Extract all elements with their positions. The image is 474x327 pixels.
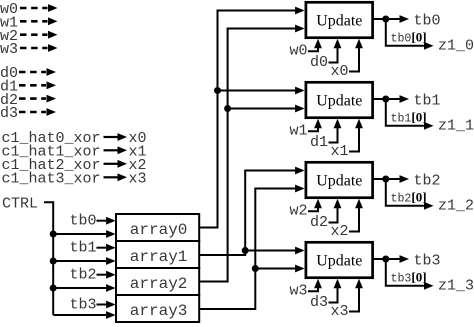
svg-text:array1: array1: [130, 248, 188, 266]
svg-text:w0: w0: [290, 43, 308, 60]
svg-text:tb2[0]: tb2[0]: [391, 189, 427, 205]
svg-text:tb3: tb3: [414, 252, 441, 269]
junction array0 branch: [214, 87, 221, 94]
svg-text:Update: Update: [316, 92, 362, 109]
wire U3 output: [373, 178, 401, 180]
svg-text:d2: d2: [310, 214, 328, 231]
wire w0 into U1 pin: [308, 45, 318, 51]
svg-text:w3: w3: [290, 283, 308, 300]
wire U1 output: [373, 18, 401, 20]
wire tb1[0] to z1_1: [386, 99, 425, 126]
wire array0 output to Update U1: [199, 11, 297, 228]
svg-text:z1_1: z1_1: [438, 118, 474, 135]
wire w1 dashed arrow: [20, 20, 48, 23]
wire U4 output: [373, 258, 401, 260]
svg-text:CTRL: CTRL: [2, 196, 38, 213]
wire x3 into U4 pin: [349, 285, 359, 312]
junction CTRL to array1: [50, 258, 57, 265]
wire c1_hat2_xor to x2: [104, 163, 119, 165]
op-amp U1 Update block: [306, 2, 373, 37]
svg-text:tb3[0]: tb3[0]: [391, 269, 427, 285]
wire CTRL bus: [44, 202, 53, 315]
svg-text:tb1: tb1: [70, 240, 97, 257]
svg-text:array3: array3: [130, 302, 188, 320]
wire d2 dashed arrow: [19, 97, 46, 100]
svg-text:x3: x3: [129, 171, 147, 188]
svg-text:z1_2: z1_2: [438, 198, 474, 215]
wire w0 dashed arrow: [20, 7, 48, 10]
svg-text:x0: x0: [331, 63, 349, 80]
svg-text:tb2: tb2: [70, 267, 97, 284]
wire tb3[0] to z1_3: [386, 259, 425, 286]
wire w3 into U4 pin: [308, 285, 318, 291]
wire array3 output to Update U3: [199, 189, 297, 310]
wire CTRL to array0: [53, 233, 106, 235]
svg-text:x1: x1: [331, 143, 349, 160]
wire array1 branch to Update U4: [245, 250, 296, 252]
wire x0 into U1 pin: [349, 45, 359, 72]
svg-text:tb1[0]: tb1[0]: [391, 109, 427, 125]
wire tb2 to array2: [97, 274, 107, 276]
wire tb1 to array1: [97, 247, 107, 249]
array0: [116, 214, 199, 241]
junction tb0 output node: [382, 16, 389, 23]
svg-text:Update: Update: [316, 252, 362, 269]
svg-text:d1: d1: [310, 134, 328, 151]
wire tb0 to array0: [97, 220, 107, 222]
array1: [116, 241, 199, 268]
junction array3 branch: [252, 265, 259, 272]
wire w1 into U2 pin: [308, 125, 318, 131]
wire tb0[0] to z1_0: [386, 19, 425, 46]
wire c1_hat3_xor to x3: [104, 176, 119, 178]
svg-text:c1_hat3_xor: c1_hat3_xor: [2, 171, 101, 188]
wire w3 dashed arrow: [20, 47, 48, 50]
wire c1_hat0_xor to x0: [104, 136, 119, 138]
wire d3 dashed arrow: [19, 111, 46, 114]
svg-text:z1_0: z1_0: [438, 38, 474, 55]
svg-text:w1: w1: [290, 123, 308, 140]
wire array3 branch to Update U4: [255, 268, 296, 270]
svg-text:d0: d0: [310, 54, 328, 71]
svg-text:array0: array0: [130, 221, 188, 239]
wire d1 dashed arrow: [19, 84, 46, 87]
wire d0 into U1 pin: [329, 45, 338, 63]
wire CTRL to array2: [53, 287, 106, 289]
wire w2 into U3 pin: [308, 205, 318, 211]
wire array2 branch to Update U2: [228, 108, 296, 110]
junction array1 branch: [242, 247, 249, 254]
svg-text:d3: d3: [310, 294, 328, 311]
svg-text:w2: w2: [290, 203, 308, 220]
wire c1_hat1_xor to x1: [104, 149, 119, 151]
wire tb2[0] to z1_2: [386, 179, 425, 206]
array2: [116, 268, 199, 295]
svg-text:array2: array2: [130, 275, 188, 293]
svg-text:d3: d3: [0, 105, 18, 122]
junction tb3 output node: [382, 256, 389, 263]
wire d1 into U2 pin: [329, 125, 338, 143]
wire d0 dashed arrow: [19, 71, 46, 74]
wire tb3 to array3: [97, 304, 107, 306]
svg-text:x2: x2: [331, 223, 349, 240]
svg-text:tb0: tb0: [414, 12, 441, 29]
svg-text:w3: w3: [0, 41, 18, 58]
wire array1 output to Update U3: [199, 171, 297, 256]
junction CTRL to array0: [50, 231, 57, 238]
wire CTRL to array1: [53, 260, 106, 262]
wire d2 into U3 pin: [329, 205, 338, 223]
wire x1 into U2 pin: [349, 125, 359, 152]
wire d3 into U4 pin: [329, 285, 338, 303]
op-amp U4 Update block: [306, 242, 373, 277]
svg-text:tb0[0]: tb0[0]: [391, 29, 427, 45]
op-amp U2 Update block: [306, 82, 373, 117]
wire array2 output to Update U1: [199, 29, 297, 282]
svg-text:tb2: tb2: [414, 172, 441, 189]
wire array0 branch to Update U2: [218, 90, 297, 92]
junction tb2 output node: [382, 176, 389, 183]
wire CTRL to array3: [53, 314, 106, 316]
wire w2 dashed arrow: [20, 33, 48, 36]
svg-text:tb1: tb1: [414, 92, 441, 109]
svg-text:tb0: tb0: [70, 213, 97, 230]
junction tb1 output node: [382, 96, 389, 103]
op-amp U3 Update block: [306, 162, 373, 197]
svg-text:x3: x3: [331, 303, 349, 320]
wire U2 output: [373, 98, 401, 100]
svg-text:tb3: tb3: [70, 296, 97, 313]
array3: [116, 295, 199, 322]
junction array2 branch: [224, 105, 231, 112]
junction CTRL to array2: [50, 285, 57, 292]
wire x2 into U3 pin: [349, 205, 359, 232]
svg-text:z1_3: z1_3: [438, 278, 474, 295]
svg-text:Update: Update: [316, 12, 362, 29]
svg-text:Update: Update: [316, 172, 362, 189]
